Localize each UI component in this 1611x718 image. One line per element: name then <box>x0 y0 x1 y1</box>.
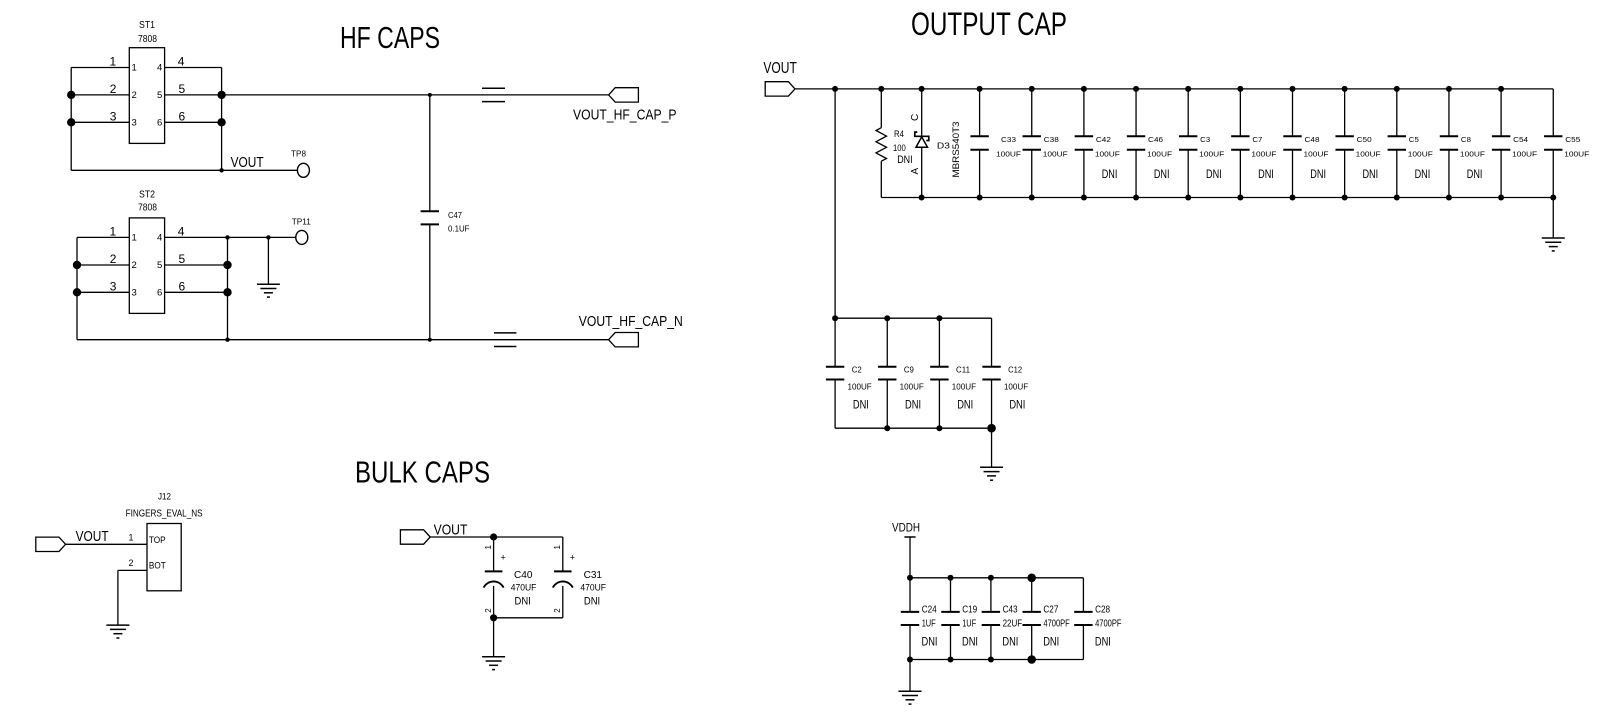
svg-text:C7: C7 <box>1252 135 1262 144</box>
D3 cathode bar <box>915 132 929 140</box>
svg-text:C11: C11 <box>956 366 970 375</box>
VDDH top rail wire <box>910 577 1083 579</box>
svg-text:DNI: DNI <box>897 154 912 166</box>
svg-text:DNI: DNI <box>957 398 973 412</box>
svg-text:BULK CAPS: BULK CAPS <box>355 455 490 490</box>
ST2 pin 6 wire <box>165 291 228 293</box>
svg-text:VOUT_HF_CAP_N: VOUT_HF_CAP_N <box>579 313 683 330</box>
capacitor C2 <box>834 318 836 367</box>
svg-text:1: 1 <box>110 55 117 69</box>
svg-text:100UF: 100UF <box>1512 150 1538 159</box>
svg-text:100UF: 100UF <box>1043 150 1069 159</box>
junction dot pin4 row <box>225 235 229 239</box>
bottom rail junction dots <box>919 195 925 201</box>
svg-text:1: 1 <box>484 545 493 550</box>
svg-text:C48: C48 <box>1305 135 1320 144</box>
svg-text:DNI: DNI <box>1258 167 1274 181</box>
svg-text:C46: C46 <box>1148 135 1163 144</box>
svg-text:DNI: DNI <box>1102 167 1118 181</box>
bus-entry dashes bottom <box>494 332 516 334</box>
bottom rail wire <box>881 197 1553 199</box>
svg-text:1UF: 1UF <box>962 618 976 629</box>
testpoint TP8 <box>297 163 309 177</box>
svg-text:C38: C38 <box>1044 135 1059 144</box>
J12 ground wire <box>117 570 119 625</box>
off-page connector VOUT_HF_CAP_P <box>609 88 639 102</box>
junction dot C40 bottom <box>490 614 497 621</box>
ST2 right bus wire <box>227 237 229 339</box>
ground symbol output row <box>1542 237 1565 239</box>
svg-text:ST2: ST2 <box>139 189 155 200</box>
svg-text:C2: C2 <box>852 366 862 375</box>
capacitor C55 <box>1552 89 1554 136</box>
capacitor C9 <box>886 318 888 367</box>
svg-text:DNI: DNI <box>515 596 531 608</box>
ST2 pin 5 wire <box>165 264 228 266</box>
svg-text:100UF: 100UF <box>1004 382 1028 391</box>
svg-text:7808: 7808 <box>138 203 157 214</box>
ground symbol C2 row <box>980 466 1003 468</box>
junction dot ST2 bottom <box>225 338 229 342</box>
svg-text:DNI: DNI <box>1206 167 1222 181</box>
svg-text:ST1: ST1 <box>139 20 155 31</box>
ST2 pin 4 wire to TP11 <box>165 236 296 238</box>
ST2 pin 3 wire <box>77 291 129 293</box>
capacitor C48 <box>1292 89 1294 136</box>
VDDH bottom rail dots <box>907 657 913 663</box>
svg-text:DNI: DNI <box>1154 167 1170 181</box>
svg-text:MBRS540T3: MBRS540T3 <box>950 122 961 178</box>
svg-text:1: 1 <box>132 63 137 74</box>
svg-text:HF CAPS: HF CAPS <box>340 20 440 55</box>
polarized capacitor C40 <box>493 537 495 571</box>
svg-text:3: 3 <box>132 117 137 128</box>
junction dot C47 top <box>428 93 432 97</box>
connector J12 body <box>147 524 181 591</box>
capacitor C24 <box>909 578 911 612</box>
svg-text:VOUT: VOUT <box>434 522 468 539</box>
capacitor C42 <box>1083 89 1085 136</box>
svg-text:R4: R4 <box>894 129 904 139</box>
VDDH top rail dots <box>907 575 913 581</box>
svg-text:OUTPUT CAP: OUTPUT CAP <box>911 6 1067 42</box>
svg-text:100UF: 100UF <box>1460 150 1486 159</box>
svg-text:DNI: DNI <box>1467 167 1483 181</box>
svg-text:100: 100 <box>893 143 906 153</box>
ST1 pin 2 wire <box>71 94 129 96</box>
svg-text:C: C <box>910 114 921 121</box>
svg-text:5: 5 <box>179 252 186 266</box>
C2 row top dots <box>832 315 838 321</box>
svg-text:1UF: 1UF <box>922 618 936 629</box>
svg-text:DNI: DNI <box>1310 167 1326 181</box>
ST2 junction dots right <box>223 261 231 269</box>
svg-text:4: 4 <box>157 63 162 74</box>
junction dot C40 top <box>490 533 497 540</box>
svg-text:4: 4 <box>157 232 162 243</box>
svg-text:0.1UF: 0.1UF <box>448 225 470 234</box>
ground symbol TP11 <box>257 283 280 285</box>
svg-text:D3: D3 <box>937 142 951 151</box>
svg-text:3: 3 <box>110 109 117 123</box>
svg-text:C42: C42 <box>1096 135 1111 144</box>
ground symbol J12 <box>106 624 129 626</box>
svg-text:3: 3 <box>110 279 117 293</box>
svg-text:3: 3 <box>132 287 137 298</box>
ST1 pin 3 wire <box>71 121 129 123</box>
svg-text:100UF: 100UF <box>900 382 924 391</box>
svg-text:470UF: 470UF <box>580 583 606 593</box>
svg-text:VDDH: VDDH <box>892 521 920 535</box>
ST1 junction dots right <box>217 91 225 99</box>
svg-text:22UF: 22UF <box>1003 618 1023 629</box>
svg-text:1: 1 <box>553 545 562 550</box>
svg-text:DNI: DNI <box>1043 636 1059 649</box>
svg-text:C19: C19 <box>962 604 977 615</box>
svg-text:1: 1 <box>110 224 117 238</box>
IC ST1 7808 body <box>129 48 164 144</box>
svg-text:5: 5 <box>157 260 162 271</box>
svg-text:C27: C27 <box>1043 604 1058 615</box>
svg-text:6: 6 <box>179 109 186 123</box>
svg-text:2: 2 <box>129 558 134 568</box>
power symbol VDDH <box>904 536 915 538</box>
capacitor C47 <box>429 95 431 211</box>
svg-text:100UF: 100UF <box>1564 150 1590 159</box>
wire VOUT_HF_CAP_P net <box>222 94 609 96</box>
svg-text:100UF: 100UF <box>1199 150 1225 159</box>
svg-text:C24: C24 <box>922 604 937 615</box>
IC ST2 7808 body <box>129 218 164 314</box>
top rail wire VOUT <box>795 88 1553 90</box>
off-page connector VOUT (output cap) <box>765 82 795 96</box>
capacitor C33 <box>979 89 981 136</box>
ground wire at TP11 <box>267 237 269 284</box>
svg-text:TP8: TP8 <box>291 148 306 158</box>
svg-text:4700PF: 4700PF <box>1043 618 1069 629</box>
ST1 left bus wire <box>70 68 72 171</box>
capacitor C54 <box>1500 89 1502 136</box>
off-page connector VOUT (J12) <box>36 537 66 551</box>
bulk bottom rail wire <box>494 617 563 619</box>
junction dot bottom wire <box>219 168 223 172</box>
svg-text:100UF: 100UF <box>848 382 872 391</box>
svg-text:2: 2 <box>110 252 117 266</box>
svg-text:DNI: DNI <box>1002 636 1018 649</box>
svg-text:VOUT: VOUT <box>76 529 109 545</box>
svg-text:DNI: DNI <box>962 636 978 649</box>
capacitor C5 <box>1396 89 1398 136</box>
testpoint TP11 <box>296 230 308 244</box>
capacitor C7 <box>1239 89 1241 136</box>
ground wire C2 row <box>991 428 993 467</box>
ST1 junction dots left <box>67 91 75 99</box>
svg-text:C8: C8 <box>1461 135 1471 144</box>
bus-entry dashes top <box>482 87 505 89</box>
svg-text:4: 4 <box>178 224 185 238</box>
capacitor C3 <box>1187 89 1189 136</box>
svg-text:DNI: DNI <box>1362 167 1378 181</box>
C2 row bottom rail <box>835 427 991 429</box>
svg-text:DNI: DNI <box>922 636 938 649</box>
svg-text:J12: J12 <box>158 492 171 502</box>
svg-text:100UF: 100UF <box>952 382 976 391</box>
svg-text:BOT: BOT <box>149 561 166 571</box>
svg-text:+: + <box>570 553 575 563</box>
svg-text:4700PF: 4700PF <box>1095 618 1121 629</box>
C2 row bottom dots <box>884 425 890 431</box>
off-page connector VOUT (bulk) <box>400 530 430 544</box>
svg-text:DNI: DNI <box>1009 398 1025 412</box>
svg-text:C9: C9 <box>904 366 914 375</box>
svg-text:6: 6 <box>157 287 162 298</box>
svg-text:C5: C5 <box>1409 135 1419 144</box>
svg-text:VOUT: VOUT <box>763 60 797 77</box>
capacitor C27 <box>1031 578 1033 612</box>
svg-text:C3: C3 <box>1200 135 1210 144</box>
svg-text:100UF: 100UF <box>1356 150 1382 159</box>
svg-text:C43: C43 <box>1003 604 1018 615</box>
ST1 pin 5 wire <box>165 94 222 96</box>
ST1 right bus wire <box>221 68 223 171</box>
svg-text:C47: C47 <box>448 211 463 220</box>
svg-text:100UF: 100UF <box>1095 150 1121 159</box>
branch wire down from VOUT rail <box>834 89 836 318</box>
C2 row top rail <box>835 317 991 319</box>
ST2 pin 2 wire <box>77 264 129 266</box>
svg-text:DNI: DNI <box>584 596 600 608</box>
svg-text:DNI: DNI <box>905 398 921 412</box>
ST1 bottom wire to TP8 <box>71 169 297 171</box>
svg-text:C12: C12 <box>1008 366 1022 375</box>
svg-text:C55: C55 <box>1565 135 1580 144</box>
svg-text:1: 1 <box>129 532 134 542</box>
ST1 pin 6 wire <box>165 121 222 123</box>
J12 pin 1 wire <box>66 543 147 545</box>
svg-text:100UF: 100UF <box>1304 150 1330 159</box>
capacitor C46 <box>1135 89 1137 136</box>
svg-text:6: 6 <box>157 117 162 128</box>
svg-text:2: 2 <box>132 90 137 101</box>
top rail junction dots <box>832 86 838 92</box>
capacitor C8 <box>1448 89 1450 136</box>
ST2 junction dots left <box>73 261 81 269</box>
svg-text:100UF: 100UF <box>996 150 1022 159</box>
J12 pin 2 wire <box>118 569 147 571</box>
capacitor C28 <box>1082 578 1084 612</box>
svg-text:4: 4 <box>178 55 185 69</box>
ground symbol VDDH <box>899 690 922 692</box>
VDDH bottom rail wire <box>910 659 1083 661</box>
svg-text:TOP: TOP <box>149 535 166 545</box>
svg-text:100UF: 100UF <box>1147 150 1173 159</box>
svg-text:100UF: 100UF <box>1408 150 1434 159</box>
svg-text:C28: C28 <box>1095 604 1110 615</box>
svg-text:C40: C40 <box>514 570 533 581</box>
svg-text:VOUT: VOUT <box>231 155 264 171</box>
svg-text:FINGERS_EVAL_NS: FINGERS_EVAL_NS <box>126 509 203 520</box>
ST1 pin 1 wire <box>71 67 129 69</box>
svg-text:A: A <box>910 168 921 175</box>
junction dot C47 bottom <box>428 338 432 342</box>
capacitor C19 <box>950 578 952 612</box>
ST2 left bus wire <box>76 237 78 339</box>
svg-text:7808: 7808 <box>138 34 157 45</box>
svg-text:100UF: 100UF <box>1251 150 1277 159</box>
svg-text:+: + <box>501 553 506 563</box>
svg-text:470UF: 470UF <box>511 583 537 593</box>
svg-text:C31: C31 <box>584 570 603 581</box>
svg-text:6: 6 <box>179 279 186 293</box>
junction dot ground branch <box>266 235 270 239</box>
svg-text:TP11: TP11 <box>292 217 311 227</box>
ground symbol bulk <box>482 656 505 658</box>
svg-text:2: 2 <box>484 608 493 613</box>
D3 anode triangle <box>916 137 928 147</box>
off-page connector VOUT_HF_CAP_N <box>609 333 639 347</box>
svg-text:2: 2 <box>110 82 117 96</box>
polarized capacitor C31 <box>562 537 564 571</box>
svg-text:1: 1 <box>132 232 137 243</box>
svg-text:C54: C54 <box>1513 135 1528 144</box>
capacitor C43 <box>990 578 992 612</box>
capacitor C38 <box>1031 89 1033 136</box>
wire VOUT_HF_CAP_N net <box>77 339 609 341</box>
ground wire at C55 <box>1552 198 1554 239</box>
svg-text:DNI: DNI <box>1415 167 1431 181</box>
svg-text:2: 2 <box>132 260 137 271</box>
svg-text:C33: C33 <box>1001 135 1016 144</box>
capacitor C11 <box>938 318 940 367</box>
capacitor C12 <box>991 318 993 367</box>
ST2 pin 1 wire <box>77 236 129 238</box>
svg-text:C50: C50 <box>1357 135 1372 144</box>
svg-text:5: 5 <box>157 90 162 101</box>
svg-text:5: 5 <box>179 82 186 96</box>
svg-text:DNI: DNI <box>1095 636 1111 649</box>
svg-text:DNI: DNI <box>853 398 869 412</box>
resistor R4 <box>880 89 882 128</box>
bulk top rail wire <box>430 536 563 538</box>
svg-text:VOUT_HF_CAP_P: VOUT_HF_CAP_P <box>573 107 677 124</box>
diode D3 (schottky) <box>921 89 923 136</box>
ground wire VDDH <box>909 660 911 692</box>
capacitor C50 <box>1344 89 1346 136</box>
ground wire bulk <box>493 618 495 657</box>
svg-text:2: 2 <box>553 608 562 613</box>
ST1 pin 4 wire <box>165 67 222 69</box>
